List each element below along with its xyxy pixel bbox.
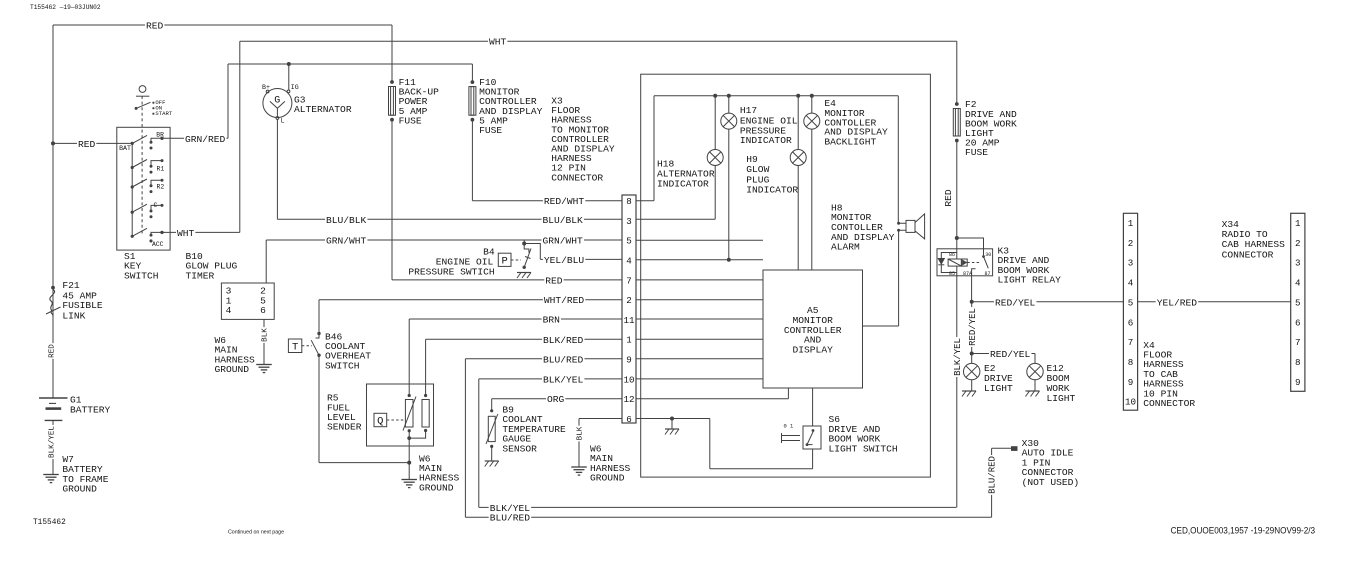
svg-text:BLU/BLK: BLU/BLK — [543, 215, 584, 226]
svg-text:YEL/BLU: YEL/BLU — [544, 255, 585, 266]
svg-text:R2: R2 — [157, 183, 165, 190]
svg-text:R1: R1 — [157, 165, 165, 172]
svg-text:LIGHT SWITCH: LIGHT SWITCH — [829, 444, 898, 455]
svg-text:4: 4 — [626, 256, 632, 267]
svg-text:RED: RED — [78, 139, 96, 150]
svg-text:GRN/WHT: GRN/WHT — [543, 235, 584, 246]
svg-text:LINK: LINK — [62, 311, 85, 322]
svg-text:START: START — [155, 110, 172, 117]
svg-text:C: C — [154, 202, 158, 209]
svg-text:9: 9 — [626, 355, 632, 366]
svg-text:RED/WHT: RED/WHT — [544, 196, 585, 207]
svg-text:8: 8 — [1128, 357, 1134, 368]
svg-text:INDICATOR: INDICATOR — [657, 179, 709, 190]
svg-text:FUSE: FUSE — [479, 125, 502, 136]
svg-text:GROUND: GROUND — [590, 473, 625, 484]
svg-text:GRN/RED: GRN/RED — [185, 134, 226, 145]
svg-text:FUSE: FUSE — [965, 147, 988, 158]
svg-text:7: 7 — [1295, 337, 1301, 348]
svg-text:85: 85 — [949, 271, 955, 277]
svg-text:BLK/YEL: BLK/YEL — [49, 426, 57, 458]
svg-text:8: 8 — [1295, 357, 1301, 368]
svg-text:CONNECTOR: CONNECTOR — [551, 172, 603, 183]
svg-text:4: 4 — [226, 305, 232, 316]
svg-text:1: 1 — [626, 335, 632, 346]
svg-text:DISPLAY: DISPLAY — [793, 345, 834, 356]
svg-text:CONNECTOR: CONNECTOR — [1143, 398, 1195, 409]
svg-text:G: G — [274, 96, 280, 107]
svg-text:9: 9 — [1128, 377, 1134, 388]
svg-text:F21: F21 — [62, 280, 80, 291]
svg-text:IG: IG — [291, 84, 299, 91]
svg-text:WHT: WHT — [489, 37, 507, 48]
svg-text:10: 10 — [623, 374, 634, 385]
svg-text:SWITCH: SWITCH — [124, 270, 159, 281]
svg-text:PRESSURE SWTICH: PRESSURE SWTICH — [408, 267, 494, 278]
svg-text:6: 6 — [1128, 317, 1134, 328]
svg-text:P: P — [501, 256, 507, 268]
svg-text:GROUND: GROUND — [215, 364, 250, 375]
svg-text:(NOT USED): (NOT USED) — [1022, 477, 1080, 488]
svg-text:T: T — [292, 341, 298, 353]
svg-text:ORG: ORG — [547, 394, 565, 405]
svg-text:2: 2 — [1295, 238, 1301, 249]
svg-text:FUSE: FUSE — [399, 115, 422, 126]
svg-text:1: 1 — [1295, 218, 1301, 229]
svg-text:5: 5 — [626, 236, 632, 247]
svg-text:RED/YEL: RED/YEL — [990, 349, 1031, 360]
svg-text:BLK/YEL: BLK/YEL — [543, 374, 584, 385]
svg-text:RED/YEL: RED/YEL — [995, 297, 1036, 308]
svg-text:LIGHT: LIGHT — [1047, 393, 1076, 404]
svg-text:ALARM: ALARM — [831, 242, 860, 253]
svg-text:ALTERNATOR: ALTERNATOR — [294, 104, 352, 115]
svg-text:86: 86 — [949, 252, 955, 258]
svg-text:FUSIBLE: FUSIBLE — [62, 300, 103, 311]
svg-text:WHT: WHT — [177, 228, 195, 239]
svg-text:RED: RED — [545, 275, 563, 286]
svg-text:CED,OUOE003,1957 -19-29NOV99-2: CED,OUOE003,1957 -19-29NOV99-2/3 — [1171, 526, 1316, 536]
svg-text:BAT: BAT — [119, 145, 131, 152]
svg-text:SENDER: SENDER — [327, 422, 362, 433]
svg-text:BRN: BRN — [543, 314, 560, 325]
svg-text:BACKLIGHT: BACKLIGHT — [824, 136, 876, 147]
svg-text:3: 3 — [1128, 258, 1134, 269]
svg-text:GROUND: GROUND — [419, 482, 454, 493]
svg-text:8: 8 — [626, 196, 632, 207]
svg-text:BLK/YEL: BLK/YEL — [953, 338, 963, 376]
svg-text:12: 12 — [623, 394, 634, 405]
svg-text:LIGHT: LIGHT — [984, 383, 1013, 394]
svg-text:T155462 —19—03JUN02: T155462 —19—03JUN02 — [30, 4, 101, 11]
svg-text:CONNECTOR: CONNECTOR — [1222, 249, 1274, 260]
svg-text:6: 6 — [626, 414, 632, 425]
svg-text:T155462: T155462 — [33, 519, 66, 527]
svg-text:BLK/RED: BLK/RED — [543, 335, 584, 346]
svg-text:BLK/YEL: BLK/YEL — [490, 503, 531, 514]
svg-text:BLK: BLK — [262, 328, 270, 342]
svg-text:B+: B+ — [262, 84, 270, 91]
svg-text:11: 11 — [623, 315, 635, 326]
svg-text:ACC: ACC — [152, 241, 164, 248]
svg-text:RED: RED — [146, 20, 164, 31]
svg-text:4: 4 — [1295, 278, 1301, 289]
svg-text:10: 10 — [1125, 397, 1136, 408]
svg-text:30: 30 — [985, 252, 991, 258]
svg-text:BLU/RED: BLU/RED — [490, 513, 531, 524]
svg-text:7: 7 — [626, 275, 632, 286]
svg-text:5: 5 — [1128, 297, 1134, 308]
svg-text:WHT/RED: WHT/RED — [544, 295, 585, 306]
svg-text:87: 87 — [984, 271, 990, 277]
svg-text:LIGHT RELAY: LIGHT RELAY — [998, 275, 1062, 286]
svg-text:6: 6 — [260, 305, 266, 316]
svg-text:RED: RED — [49, 344, 57, 358]
svg-text:BLK: BLK — [577, 426, 585, 440]
svg-text:3: 3 — [1295, 258, 1301, 269]
svg-text:RED: RED — [943, 189, 954, 207]
svg-text:B4: B4 — [483, 246, 495, 257]
svg-text:Continued on next page: Continued on next page — [228, 530, 284, 536]
svg-text:BLU/RED: BLU/RED — [988, 456, 998, 494]
svg-text:2: 2 — [626, 295, 632, 306]
svg-text:6: 6 — [1295, 317, 1301, 328]
svg-text:BATTERY: BATTERY — [70, 405, 111, 416]
svg-text:4: 4 — [1128, 278, 1134, 289]
svg-text:SENSOR: SENSOR — [502, 443, 537, 454]
svg-text:2: 2 — [1128, 238, 1134, 249]
svg-text:INDICATOR: INDICATOR — [740, 135, 792, 146]
svg-text:BLU/BLK: BLU/BLK — [326, 215, 367, 226]
svg-text:0 1: 0 1 — [784, 424, 794, 430]
svg-text:GRN/WHT: GRN/WHT — [326, 235, 367, 246]
svg-text:5: 5 — [1295, 297, 1301, 308]
svg-text:H17: H17 — [740, 105, 757, 116]
svg-text:L: L — [281, 118, 285, 125]
svg-text:INDICATOR: INDICATOR — [746, 185, 798, 196]
svg-text:1: 1 — [1128, 218, 1134, 229]
svg-text:Q: Q — [377, 416, 383, 428]
svg-text:BLU/RED: BLU/RED — [543, 354, 584, 365]
svg-text:GROUND: GROUND — [62, 484, 97, 495]
svg-text:TIMER: TIMER — [186, 270, 215, 281]
svg-text:7: 7 — [1128, 337, 1134, 348]
svg-text:RED/YEL: RED/YEL — [968, 308, 978, 346]
svg-text:87A: 87A — [963, 271, 972, 277]
svg-text:BR: BR — [156, 131, 164, 138]
svg-text:3: 3 — [626, 216, 632, 227]
svg-text:9: 9 — [1295, 377, 1301, 388]
svg-text:SWITCH: SWITCH — [325, 360, 360, 371]
svg-text:YEL/RED: YEL/RED — [1157, 297, 1198, 308]
